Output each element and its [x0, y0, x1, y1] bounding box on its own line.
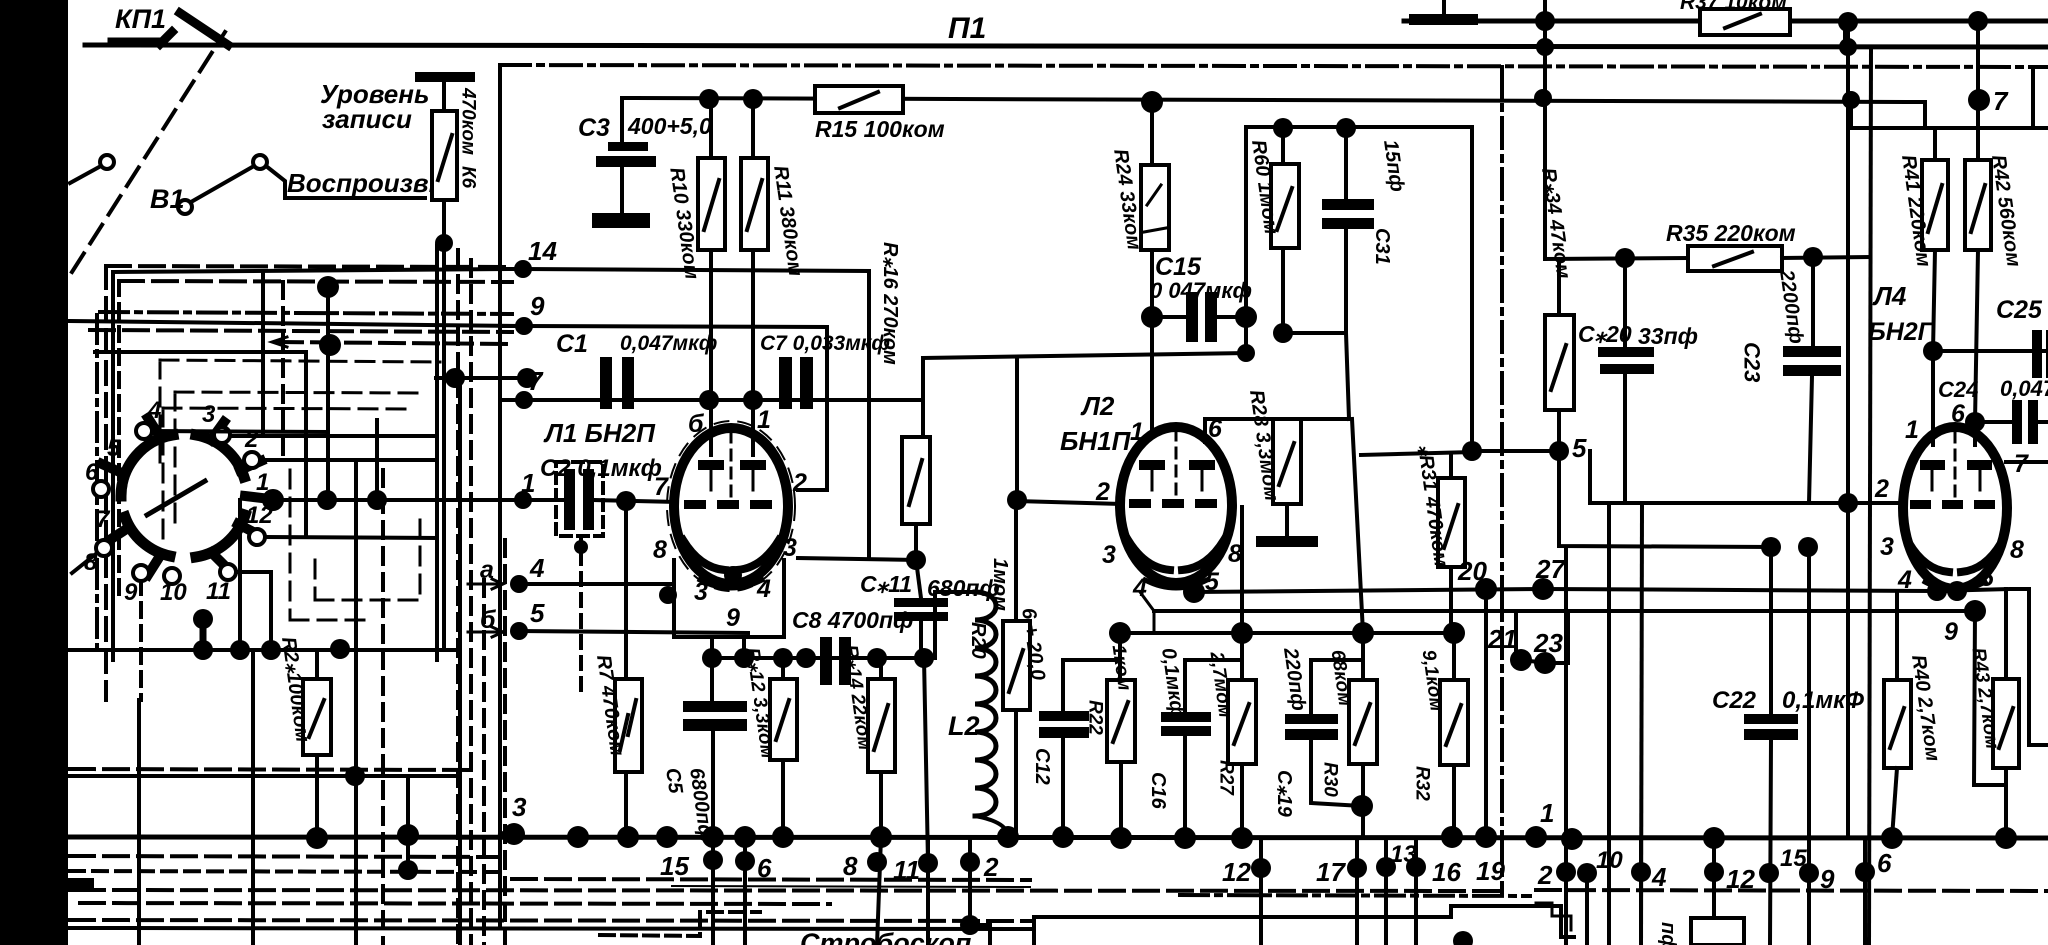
resistor R16 270kom	[921, 400, 925, 437]
wire: 14 line to R16 node	[523, 269, 869, 558]
wire: y=451 node line	[1472, 449, 1559, 453]
strobo box staircase	[1034, 906, 1574, 945]
wire: down to pin6 header	[1346, 333, 1349, 419]
wire: pin2 line y=503	[1590, 501, 1904, 505]
ground bar	[1285, 504, 1289, 536]
resistor R42 560kom	[1976, 21, 1980, 160]
svg-text:С12: С12	[1031, 748, 1053, 785]
svg-text:4: 4	[756, 575, 771, 603]
svg-text:17: 17	[1316, 857, 1346, 887]
svg-text:С7 0,033мкф: С7 0,033мкф	[760, 332, 890, 355]
node K6 bottom	[435, 234, 453, 252]
capacitor C19 220pf	[1309, 660, 1313, 714]
wire: R42 to pin6/C24	[1975, 250, 1978, 445]
svg-text:13: 13	[1390, 841, 1417, 868]
wire: selector pin1 line y=500	[273, 498, 516, 502]
svg-text:2: 2	[1095, 478, 1110, 506]
svg-text:С25: С25	[1996, 296, 2043, 324]
capacitor C15 0,047mkf	[1141, 306, 1163, 328]
svg-text:15: 15	[660, 851, 689, 881]
svg-text:5: 5	[1572, 433, 1587, 463]
svg-text:пф: пф	[1657, 922, 1679, 945]
selector contacts	[136, 423, 152, 439]
resistor R43 2,7kom	[2004, 589, 2008, 679]
resistor R24 33kom	[1150, 102, 1154, 165]
resistor R41 220kom	[1933, 128, 1937, 160]
dash-dot chassis border vertical x=1502	[1500, 67, 1504, 893]
node 21 / 23 line	[1516, 611, 1568, 663]
wire: node line y=658	[712, 656, 935, 660]
svg-text:3: 3	[512, 792, 527, 822]
svg-text:15: 15	[1780, 845, 1807, 872]
left black scan margin	[0, 0, 68, 945]
svg-text:L2: L2	[948, 711, 980, 741]
capacitor C11 680pf	[916, 560, 921, 598]
svg-text:Воспроизв.: Воспроизв.	[287, 168, 436, 198]
wire: R11 bottom to tube pin1	[751, 250, 755, 455]
svg-text:С16: С16	[1147, 772, 1169, 810]
terminal 1	[500, 498, 523, 502]
svg-text:R30: R30	[1320, 762, 1341, 797]
svg-text:1: 1	[757, 406, 771, 434]
node dots top right	[1535, 11, 1555, 31]
svg-text:16: 16	[1432, 857, 1461, 887]
wire: drop from node 20 to bus	[1484, 589, 1488, 837]
node dots x=328	[317, 276, 339, 298]
cathode box under tube L1	[674, 560, 784, 637]
svg-text:С31: С31	[1371, 228, 1393, 265]
wire: pin8 drop x=1242	[1240, 507, 1244, 633]
svg-text:400+5,0: 400+5,0	[627, 113, 712, 139]
svg-text:6: 6	[1208, 415, 1223, 443]
svg-text:9: 9	[1944, 618, 1958, 646]
svg-text:1: 1	[256, 469, 269, 496]
resistor R28 3,3mom	[1273, 419, 1301, 504]
svg-text:R15 100ком: R15 100ком	[815, 116, 945, 142]
svg-text:Л2: Л2	[1080, 391, 1115, 421]
svg-text:6: 6	[85, 459, 99, 486]
svg-text:R20: R20	[967, 622, 989, 659]
svg-text:9: 9	[124, 579, 138, 606]
svg-text:0,047мкф: 0,047мкф	[620, 332, 717, 355]
svg-text:23: 23	[1533, 628, 1563, 658]
bottom component box right	[1691, 918, 1744, 945]
svg-text:20: 20	[1457, 556, 1487, 586]
svg-text:С24: С24	[1938, 377, 1978, 402]
wire: y=98 right corner to R41/R42 header	[1923, 102, 1927, 128]
wire: anode line y=589 pin5 L2 to right	[1194, 589, 2048, 745]
bus junction dots	[503, 823, 525, 845]
capacitor C5 6800pf	[710, 658, 714, 701]
svg-text:0 047мкф: 0 047мкф	[1150, 278, 1252, 303]
selector switch circle	[121, 435, 173, 496]
tube L2 envelope	[1120, 427, 1232, 583]
svg-text:1: 1	[1130, 418, 1144, 446]
capacitor C2 with dashed frame	[523, 498, 564, 502]
right edge vertical	[2031, 67, 2035, 128]
svg-text:9: 9	[726, 604, 740, 632]
svg-text:2: 2	[792, 469, 807, 497]
dash-dot chassis border horizontal	[500, 65, 2048, 67]
svg-text:3: 3	[1880, 533, 1894, 561]
wire: V1 arm	[70, 166, 101, 183]
svg-text:8: 8	[843, 851, 858, 881]
thick jumper	[200, 620, 207, 650]
tube L1 grid dashes	[684, 500, 706, 509]
svg-text:3: 3	[694, 578, 708, 606]
svg-text:К6: К6	[458, 166, 479, 189]
selector pointer	[147, 481, 205, 515]
svg-text:С23: С23	[1740, 342, 1765, 382]
node dots R10/R11 top	[699, 89, 719, 109]
sub-bus pin dots row right group	[1564, 547, 1568, 945]
node dot R7 top	[616, 491, 636, 511]
tube L1 envelope	[674, 428, 788, 584]
svg-text:С22: С22	[1712, 687, 1757, 714]
svg-text:0,047мк: 0,047мк	[2000, 376, 2048, 401]
svg-text:R27: R27	[1216, 760, 1237, 796]
vertical x=1545 from top to R34 line	[1543, 0, 1547, 259]
svg-text:19: 19	[1476, 856, 1505, 886]
wire: 7 line through C1 C7	[524, 358, 923, 400]
svg-text:записи: записи	[322, 104, 412, 134]
svg-text:21: 21	[1487, 624, 1517, 654]
svg-text:6: 6	[1951, 400, 1966, 428]
svg-text:С⁎11: С⁎11	[860, 571, 912, 597]
capacitor C7 0,033mkf	[779, 357, 792, 409]
svg-text:4: 4	[1651, 862, 1667, 892]
wire: long vertical x=1355	[1352, 419, 1363, 633]
tube L2 plates	[1139, 460, 1165, 470]
svg-text:R37 10ком: R37 10ком	[1680, 0, 1787, 14]
capacitor C22 0,1mkF	[1769, 547, 1773, 714]
svg-text:БН1П: БН1П	[1060, 426, 1132, 456]
svg-text:0,1мкФ: 0,1мкФ	[1782, 687, 1864, 714]
svg-text:14: 14	[528, 236, 557, 266]
tube L1 plates top	[698, 460, 724, 470]
svg-text:1: 1	[521, 468, 535, 498]
resistor R7 470kom	[624, 501, 628, 679]
nested dashed loop rects	[163, 408, 408, 540]
wire y=378	[436, 376, 530, 380]
node 20	[1475, 578, 1497, 600]
resistor R12 3,3kom	[781, 658, 785, 679]
svg-text:4: 4	[1897, 566, 1912, 594]
wire: y=259 line	[1545, 258, 1688, 259]
node 7	[1968, 89, 1990, 111]
resistor R10 330kom	[709, 99, 713, 158]
wire: grid line y=358 to 1246	[923, 353, 1246, 358]
svg-text:КП1: КП1	[115, 4, 166, 34]
resistor R30 68kom	[1361, 633, 1365, 680]
svg-text:8: 8	[2010, 536, 2024, 564]
wire: drop to tube2 grid x=1017	[1015, 357, 1019, 500]
svg-text:С5: С5	[661, 766, 686, 795]
dashed bottom bundles	[70, 769, 470, 770]
svg-text:2: 2	[1874, 475, 1889, 503]
svg-text:С1: С1	[556, 330, 588, 358]
svg-text:8: 8	[653, 536, 667, 564]
svg-text:10: 10	[160, 579, 187, 606]
svg-text:2: 2	[1537, 860, 1553, 890]
svg-text:5: 5	[1980, 564, 1995, 592]
capacitor C3 400+5,0 electrolytic	[620, 98, 624, 142]
wire: y=650 bus	[68, 648, 460, 652]
tube L4 grid dashes	[1910, 500, 1931, 509]
wire: cathode node line y=633	[1120, 631, 1454, 635]
svg-text:9: 9	[530, 291, 545, 321]
capacitor C23 2200pf	[1811, 257, 1815, 346]
inductor L2	[935, 592, 975, 658]
svg-text:11: 11	[206, 578, 231, 605]
wire: R41 to anode line	[1933, 250, 1935, 445]
wire: line y=611 pin4 to R43	[1154, 609, 1975, 613]
svg-text:12: 12	[246, 502, 273, 529]
svg-text:С⁎19: С⁎19	[1273, 770, 1295, 818]
svg-text:1мом: 1мом	[989, 558, 1011, 611]
capacitor C31 15pf	[1336, 118, 1356, 138]
svg-text:R35 220ком: R35 220ком	[1666, 220, 1796, 246]
svg-text:470ком: 470ком	[458, 87, 479, 155]
wire: 4 line to cathode box	[519, 582, 674, 586]
resistor R60 1mom	[1273, 118, 1293, 138]
capacitor C12 electrolytic 6+20,0	[1118, 633, 1122, 680]
node 27	[1532, 578, 1554, 600]
tube L4 envelope	[1903, 427, 2007, 589]
wire: R34 node down to C22 header	[1559, 451, 1771, 547]
node dots on 7 line	[699, 390, 719, 410]
black stub left	[68, 878, 94, 892]
left bundle horizontals	[106, 266, 512, 267]
solid shield box left edge x=500	[498, 67, 502, 928]
svg-text:R22: R22	[1085, 700, 1106, 735]
svg-text:4: 4	[529, 553, 545, 583]
wire: top horizontal bus	[85, 45, 2048, 47]
wire: R37 bypass corner	[1843, 22, 1847, 47]
svg-text:33пф: 33пф	[1638, 323, 1698, 349]
capacitor C8 4700pf	[820, 637, 832, 685]
resistor R22 1kom	[1107, 680, 1135, 762]
resistor R2 100kom	[315, 650, 319, 679]
svg-text:5: 5	[107, 435, 121, 462]
terminal 9	[500, 324, 524, 328]
wire: vertical x=1609	[1607, 503, 1611, 945]
sub-bus pin dots row middle group	[1259, 838, 1263, 945]
main bottom bus y=837	[70, 837, 2048, 838]
wire: 5 line	[519, 631, 748, 633]
tube L4 cathode arcs	[1909, 543, 1949, 572]
svg-text:R⁎16 270ком: R⁎16 270ком	[879, 242, 901, 365]
svg-text:7: 7	[96, 506, 111, 533]
svg-text:С3: С3	[578, 114, 610, 142]
svg-text:6: 6	[1877, 848, 1892, 878]
svg-text:5: 5	[530, 598, 545, 628]
long vertical x=1871	[1869, 47, 1871, 945]
svg-text:б: б	[688, 410, 705, 438]
switch KP1	[112, 13, 228, 45]
terminal 7	[500, 398, 524, 402]
switch V1 contact b	[253, 155, 267, 169]
resistor R31 470kom	[1361, 452, 1472, 455]
resistor R35 220kom	[1688, 246, 1782, 271]
svg-text:8: 8	[1228, 540, 1242, 568]
wire: vosproizv line	[266, 166, 425, 198]
svg-text:R32: R32	[1412, 766, 1433, 801]
resistor R32 9,1kom	[1452, 633, 1456, 680]
resistor R20 1mom	[1014, 500, 1018, 621]
svg-text:1: 1	[1905, 416, 1919, 444]
svg-text:С8 4700пф: С8 4700пф	[792, 607, 913, 633]
wire: top-right second line y=21	[1404, 19, 2048, 24]
resistor R34 47kom	[1557, 259, 1561, 315]
resistor R14 22kom	[879, 658, 883, 679]
svg-text:В1: В1	[150, 184, 185, 214]
resistor R11 380kom	[751, 99, 755, 158]
svg-text:С15: С15	[1155, 253, 1202, 281]
svg-text:10: 10	[1596, 847, 1623, 874]
svg-text:С2 0,1мкф: С2 0,1мкф	[540, 455, 662, 482]
wire: long vertical x=1871 lower	[1838, 493, 1858, 513]
resistor R27 2,7mom	[1240, 633, 1244, 680]
svg-text:БН2Г: БН2Г	[1868, 318, 1935, 346]
tube L2 cathode arcs	[1128, 540, 1170, 570]
resistor R15 100kom	[815, 86, 903, 113]
svg-text:3: 3	[202, 401, 216, 428]
tube L2 grid dashes	[1129, 499, 1151, 508]
wire: vertical x=1642	[1641, 503, 1642, 945]
capacitor C16 0,1mkf	[1183, 660, 1187, 712]
wire: R10 bottom to tube pin6	[709, 250, 713, 455]
resistor R40 2,7kom	[1895, 591, 1899, 680]
switch V1 contact c	[178, 200, 192, 214]
dashed diagonal wire top left	[72, 32, 225, 272]
node dot R24 top	[1141, 91, 1163, 113]
capacitor C20 33pf	[1623, 258, 1627, 347]
long vertical x=1848	[1846, 22, 1850, 47]
wire: pin4 L2 drop	[1140, 592, 1154, 633]
terminal bar top middle	[1409, 14, 1478, 25]
svg-text:С⁎20: С⁎20	[1578, 321, 1632, 347]
wire: x=1809 down	[1807, 547, 1811, 872]
left verticals lower	[137, 700, 141, 945]
wire: node line y=98 C3/R10/R11/R15	[625, 98, 1925, 102]
capacitor C1 0,047mkf	[600, 357, 612, 409]
wire: 9 line to tube pin2	[524, 326, 827, 490]
svg-text:12: 12	[1222, 857, 1251, 887]
wire: pin9 node to R43 bottom	[1974, 611, 2006, 785]
svg-text:2: 2	[983, 852, 999, 882]
terminal 14	[500, 267, 522, 271]
wire: tube L1 pin3 node line	[798, 558, 916, 560]
solid box around R60/C31	[1246, 127, 1472, 451]
capacitor C24 0,047mk	[1975, 420, 2012, 424]
resistor R37 10kom	[1700, 9, 1790, 35]
tube L1 cathode arcs	[683, 540, 725, 570]
switch V1 contact a	[100, 155, 114, 169]
svg-text:7: 7	[1993, 86, 2009, 116]
svg-text:27: 27	[1535, 554, 1566, 584]
svg-text:3: 3	[783, 534, 797, 562]
sub-bus pin dots row left group	[711, 837, 715, 945]
wire: pin7 L4	[2006, 460, 2048, 464]
contact wires	[152, 431, 328, 432]
resistor K6 470kom	[442, 82, 446, 111]
left bundle verticals	[111, 272, 115, 660]
svg-text:3: 3	[1102, 541, 1116, 569]
svg-text:П1: П1	[948, 12, 986, 45]
tube L4 bottom dots	[1927, 581, 1947, 601]
tube L4 plates	[1920, 460, 1945, 470]
terminal bar K6 top	[415, 72, 475, 82]
svg-text:7: 7	[654, 473, 669, 501]
svg-text:Л1 БН2П: Л1 БН2П	[543, 418, 656, 448]
svg-text:1: 1	[1540, 798, 1554, 828]
terminal 3	[500, 833, 514, 834]
selector spokes	[148, 418, 160, 437]
svg-text:Л4: Л4	[1872, 281, 1907, 311]
wire: K6 lead down	[442, 243, 446, 650]
wire: tube2 pin1 lead	[1150, 317, 1154, 433]
